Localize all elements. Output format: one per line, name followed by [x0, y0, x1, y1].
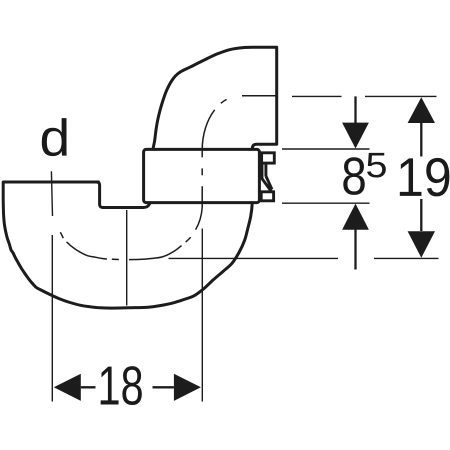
arrow 19 top (up) — [408, 97, 435, 123]
centerline U-bend — [53, 217, 196, 260]
dim text 19 — [400, 158, 422, 195]
extension line socket top level — [282, 148, 370, 150]
centerline through socket — [196, 157, 203, 229]
stem 8.5 bottom — [354, 229, 356, 270]
seal detail right of socket — [261, 153, 274, 201]
dim text 18 — [101, 367, 119, 405]
dim text 5 superscript — [367, 153, 386, 178]
d leader line — [51, 171, 52, 216]
arrow 8.5 top (down) — [342, 123, 369, 149]
socket rectangle — [144, 149, 260, 202]
seal top tab — [262, 153, 275, 163]
stem 8.5 top — [354, 96, 356, 123]
extension line trap bottom axis level — [169, 257, 439, 259]
seal bottom tab — [261, 192, 273, 201]
arrow 19 bottom (down) — [408, 231, 435, 258]
dimension arrows — [54, 97, 435, 401]
seam line U center — [126, 210, 128, 306]
extension line right (18) — [201, 229, 203, 402]
extension line left (18) — [51, 235, 53, 402]
step outline — [97, 182, 151, 208]
dimension stems — [81, 96, 422, 387]
arrow 8.5 bottom (up) — [342, 204, 369, 230]
extension line axis top (19/8.5) — [292, 95, 437, 97]
label d — [42, 118, 67, 156]
seal slot lines — [262, 164, 266, 179]
dim line 18 — [81, 386, 174, 388]
seal diagonals — [262, 176, 272, 191]
elbow outline — [153, 47, 277, 149]
trap body outline — [3, 182, 252, 308]
arrow 18 left — [54, 374, 81, 401]
stem 19 middle — [420, 122, 422, 231]
arrow 18 right — [174, 374, 201, 401]
extension line socket bottom level — [282, 202, 370, 204]
centerline elbow (dash-dot) — [202, 96, 277, 158]
dim text 8 — [343, 157, 364, 195]
